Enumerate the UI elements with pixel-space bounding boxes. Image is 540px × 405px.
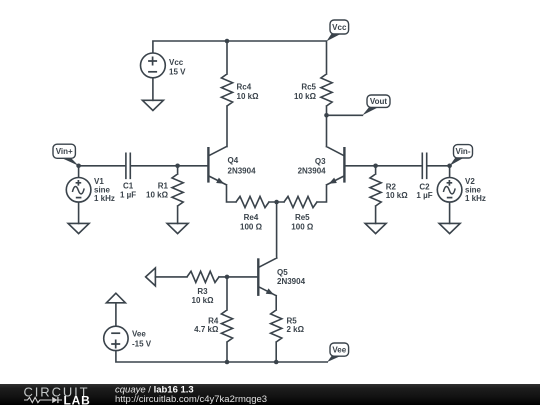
svg-text:Vin+: Vin+ xyxy=(56,147,73,156)
svg-text:1 µF: 1 µF xyxy=(416,191,432,200)
svg-text:100 Ω: 100 Ω xyxy=(291,223,314,232)
svg-text:http://circuitlab.com/c4y7ka2r: http://circuitlab.com/c4y7ka2rmqge3 xyxy=(115,394,267,405)
svg-text:Re4: Re4 xyxy=(244,213,259,222)
svg-text:Vcc: Vcc xyxy=(169,58,184,67)
svg-text:1 kHz: 1 kHz xyxy=(465,194,486,203)
svg-text:-15 V: -15 V xyxy=(132,340,152,349)
svg-text:10 kΩ: 10 kΩ xyxy=(294,92,317,101)
svg-text:2N3904: 2N3904 xyxy=(228,166,257,175)
svg-text:2N3904: 2N3904 xyxy=(277,277,306,286)
svg-text:C2: C2 xyxy=(419,183,430,192)
svg-text:R1: R1 xyxy=(158,182,169,191)
svg-text:100 Ω: 100 Ω xyxy=(240,223,263,232)
svg-text:Q3: Q3 xyxy=(315,157,326,166)
svg-text:Re5: Re5 xyxy=(295,213,310,222)
svg-text:Q4: Q4 xyxy=(228,156,239,165)
svg-text:2N3904: 2N3904 xyxy=(298,166,327,175)
svg-text:Vee: Vee xyxy=(132,330,146,339)
svg-text:Vout: Vout xyxy=(370,97,388,106)
svg-text:Vcc: Vcc xyxy=(332,23,347,32)
svg-text:2 kΩ: 2 kΩ xyxy=(287,325,305,334)
svg-text:Vee: Vee xyxy=(332,346,346,355)
svg-text:R2: R2 xyxy=(386,183,397,192)
svg-text:C1: C1 xyxy=(123,182,134,191)
svg-text:10 kΩ: 10 kΩ xyxy=(192,296,215,305)
svg-text:10 kΩ: 10 kΩ xyxy=(237,92,260,101)
svg-text:Rc4: Rc4 xyxy=(237,83,252,92)
svg-text:Vin-: Vin- xyxy=(456,147,471,156)
svg-text:4.7 kΩ: 4.7 kΩ xyxy=(194,325,219,334)
svg-text:15 V: 15 V xyxy=(169,67,186,76)
svg-text:sine: sine xyxy=(465,185,482,194)
svg-text:1 kHz: 1 kHz xyxy=(94,194,115,203)
svg-text:1 µF: 1 µF xyxy=(120,190,136,199)
svg-text:LAB: LAB xyxy=(64,393,91,405)
svg-text:sine: sine xyxy=(94,185,111,194)
svg-text:10 kΩ: 10 kΩ xyxy=(146,190,169,199)
svg-text:Rc5: Rc5 xyxy=(301,83,316,92)
svg-text:10 kΩ: 10 kΩ xyxy=(386,191,409,200)
